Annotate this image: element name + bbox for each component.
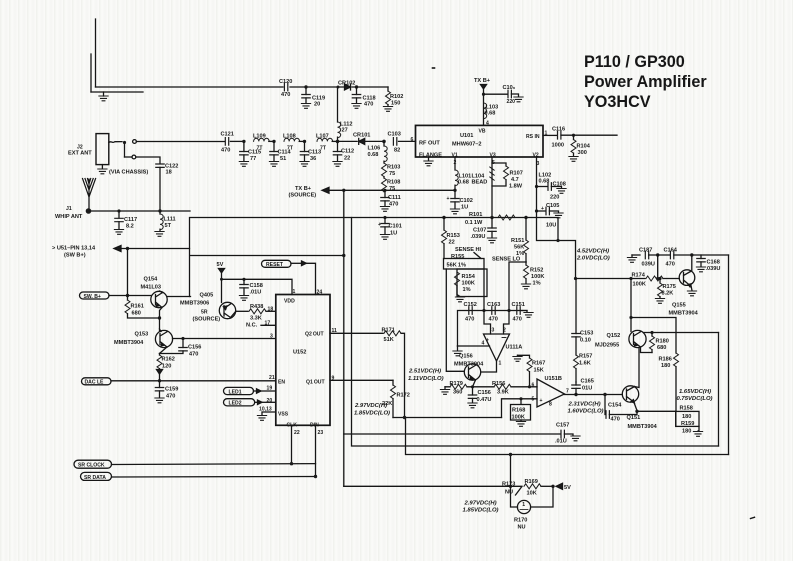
svg-text:C151: C151 [512, 302, 525, 308]
inductor L102 [539, 173, 552, 185]
node (R180 tap) [650, 331, 653, 334]
wire: J2 shield contact [125, 155, 161, 163]
svg-text:R107: R107 [510, 171, 523, 177]
svg-text:NU: NU [518, 525, 526, 531]
svg-text:R151: R151 [511, 238, 524, 244]
capacitor C115 [240, 141, 261, 162]
svg-text:V2: V2 [533, 153, 539, 159]
svg-text:LED2: LED2 [229, 401, 242, 407]
svg-text:22: 22 [449, 240, 455, 246]
resistor R107 [492, 163, 523, 190]
ground (C106) [514, 97, 523, 102]
node (C156 op tap) [471, 385, 474, 388]
svg-text:C165: C165 [581, 379, 594, 385]
node SR CLOCK oval [74, 460, 316, 469]
node (CLK junction) [290, 462, 293, 465]
resistor R171 [382, 328, 405, 418]
svg-text:470: 470 [513, 317, 522, 323]
svg-text:C108: C108 [553, 182, 566, 188]
capacitor C154 [605, 395, 637, 423]
pin 21 (U152 EN) [269, 375, 275, 381]
svg-text:4.52VDC(H): 4.52VDC(H) [576, 249, 609, 255]
svg-text:MMBT3904: MMBT3904 [669, 311, 699, 317]
svg-text:VSS: VSS [278, 412, 289, 418]
resistor R170 NU [511, 486, 554, 530]
svg-text:Q156: Q156 [459, 354, 473, 360]
svg-text:470: 470 [666, 262, 675, 268]
resistor R159 [676, 411, 699, 434]
ground (R167 ref) [513, 355, 522, 361]
wire: pin5 [502, 399, 538, 418]
pin 17 (U152 N.C) [246, 321, 276, 329]
node RESET flag [262, 260, 316, 294]
node (R175 tap) [658, 277, 661, 280]
svg-text:> U51–PIN 13,14: > U51–PIN 13,14 [52, 246, 96, 252]
svg-text:9: 9 [332, 376, 335, 382]
node TX B+ (SOURCE) flag [289, 186, 456, 199]
node (V1/TXB+ junction) [453, 189, 456, 192]
svg-text:1: 1 [499, 361, 502, 367]
wire: Q1 OUT pin 9 [330, 376, 393, 382]
wire: short lower stub y=92 [91, 91, 143, 93]
ground (U152 VSS pins 10,13) [257, 407, 275, 421]
svg-text:5: 5 [532, 397, 535, 403]
transistor Q154 M41L03 [141, 277, 191, 319]
wire: sense rail right end [526, 218, 560, 243]
node 4.52VDC annotation [576, 249, 610, 262]
svg-text:24: 24 [317, 290, 323, 296]
svg-text:1U: 1U [390, 231, 397, 237]
ground (C115) [239, 162, 248, 167]
svg-text:01U: 01U [582, 386, 592, 392]
node SENSE LO [492, 257, 526, 311]
wire: bus line y=454.5 [406, 418, 729, 455]
svg-text:470: 470 [166, 394, 175, 400]
ground (pin4 stub) [453, 351, 462, 356]
svg-text:BEAD: BEAD [472, 180, 488, 186]
svg-text:470: 470 [364, 102, 373, 108]
capacitor C106 [484, 85, 519, 105]
ground (C157) [571, 436, 580, 441]
op-amp U151B [532, 376, 570, 408]
svg-text:MMBT3906: MMBT3906 [180, 301, 209, 307]
wire: Q152 base drop [630, 279, 632, 332]
antenna J1 whip symbol [55, 179, 96, 221]
ground (C158) [239, 296, 248, 301]
svg-text:360: 360 [453, 390, 462, 396]
ground (U101 flange) [424, 157, 433, 166]
resistor R108 [382, 177, 401, 192]
ground (C107) [487, 238, 496, 243]
svg-text:MMBT3904: MMBT3904 [628, 424, 658, 430]
svg-text:L107: L107 [316, 134, 329, 140]
svg-text:R174: R174 [632, 273, 646, 279]
svg-text:4: 4 [486, 121, 489, 127]
ground (R102) [383, 107, 392, 112]
svg-text:1U: 1U [461, 205, 468, 211]
svg-text:Q2 OUT: Q2 OUT [305, 332, 324, 338]
svg-text:470: 470 [489, 317, 498, 323]
pin 5 (U101 V3) [492, 160, 495, 166]
svg-text:3: 3 [270, 334, 273, 340]
wire: sense-hi drop to op-amp [483, 269, 485, 311]
resistor R102 [386, 87, 404, 107]
resistor R101 current sense [465, 212, 515, 226]
svg-text:180: 180 [682, 414, 691, 420]
resistor R169 [524, 479, 553, 497]
resistor R162 [157, 354, 175, 381]
inductor L109 [253, 134, 274, 152]
ground (C187 left) [627, 255, 640, 262]
svg-text:C157: C157 [556, 423, 569, 429]
node (C122/L111 junction) [158, 209, 161, 212]
svg-text:5R: 5R [201, 310, 208, 316]
inductor L104 bead [472, 167, 495, 186]
node (C120/C119 junction) [304, 85, 307, 88]
svg-text:R167: R167 [532, 361, 545, 367]
svg-text:0.47U: 0.47U [477, 397, 492, 403]
wire: inner right bus [718, 333, 720, 447]
pin 2 (U101 V1) [454, 160, 457, 166]
svg-text:.01U: .01U [250, 290, 262, 296]
svg-text:1.65VDC(H): 1.65VDC(H) [679, 389, 711, 395]
svg-text:C117: C117 [124, 217, 137, 223]
svg-text:R179: R179 [450, 381, 463, 387]
svg-text:1.85VDC(LO): 1.85VDC(LO) [354, 411, 390, 417]
svg-text:R171: R171 [382, 328, 395, 334]
svg-text:DIN: DIN [310, 423, 319, 429]
wire: emitter row [445, 386, 537, 388]
resistor R168 [511, 397, 531, 421]
node SW B+ oval [80, 292, 110, 300]
capacitor C118 [352, 87, 375, 108]
svg-text:C112: C112 [341, 149, 354, 155]
svg-text:R156: R156 [492, 381, 505, 387]
ground (C111) [380, 207, 389, 212]
svg-text:C187: C187 [639, 248, 652, 254]
svg-text:U101: U101 [460, 133, 473, 139]
svg-text:R161: R161 [131, 304, 144, 310]
svg-text:120: 120 [162, 364, 171, 370]
svg-text:SW. B+: SW. B+ [84, 294, 101, 300]
svg-text:20: 20 [314, 102, 320, 108]
svg-text:J1: J1 [66, 206, 72, 212]
title block [584, 53, 707, 111]
svg-text:R172: R172 [397, 393, 410, 399]
svg-text:Q153: Q153 [135, 332, 149, 338]
ground (R175) [655, 299, 664, 304]
svg-text:470: 470 [189, 352, 198, 358]
ground (C114) [269, 162, 278, 167]
node (J2 pin junction) [123, 141, 126, 157]
capacitor C163 [487, 302, 500, 323]
capacitor C119 [302, 87, 325, 108]
svg-text:6: 6 [411, 137, 414, 143]
capacitor C164 [658, 248, 692, 268]
transistor Q152 MJD2955 [595, 330, 646, 348]
wire: J2 center pin to contact [109, 140, 225, 144]
svg-text:100K: 100K [633, 282, 646, 288]
svg-text:R169: R169 [525, 479, 538, 485]
svg-text:C153: C153 [580, 331, 593, 337]
pin 1 (U111A output) [481, 361, 502, 373]
svg-text:5V: 5V [564, 485, 571, 491]
wire: whip antenna line [91, 210, 191, 212]
svg-text:(SOURCE): (SOURCE) [193, 317, 221, 323]
svg-text:75: 75 [389, 186, 395, 192]
inductor L108 [283, 134, 305, 152]
svg-text:470: 470 [611, 417, 620, 423]
wire: U151B output [565, 394, 623, 396]
svg-text:RS IN: RS IN [526, 134, 540, 140]
node SENSE HI [455, 247, 482, 259]
svg-text:EN: EN [278, 380, 285, 386]
transistor Q151 [622, 386, 657, 430]
node (DIN junction) [314, 475, 317, 478]
svg-text:3.3K: 3.3K [250, 316, 262, 322]
svg-text:M41L03: M41L03 [141, 285, 162, 291]
svg-text:56K: 56K [514, 245, 524, 251]
IC U152 [276, 295, 330, 429]
svg-text:YO3HCV: YO3HCV [584, 93, 651, 111]
capacitor C116 [543, 127, 617, 149]
svg-text:10K: 10K [527, 491, 537, 497]
wire: Q156 base feed [446, 269, 464, 371]
node (C113 tap) [303, 140, 306, 143]
svg-text:0.68: 0.68 [485, 111, 496, 117]
node (C117 tap) [117, 209, 120, 212]
node (C187/C164 junction) [656, 253, 659, 278]
svg-text:TX B+: TX B+ [474, 78, 491, 84]
svg-text:+: + [541, 206, 544, 212]
svg-text:Q155: Q155 [672, 303, 686, 309]
svg-text:20: 20 [267, 398, 273, 404]
capacitor C108 [537, 182, 566, 201]
svg-text:R159: R159 [681, 421, 694, 427]
svg-text:C156: C156 [478, 390, 491, 396]
svg-text:100K: 100K [462, 281, 475, 287]
node LED2 oval [224, 398, 276, 407]
svg-text:R186: R186 [659, 357, 672, 363]
svg-text:8: 8 [549, 402, 552, 408]
resistor R104 [571, 135, 591, 156]
resistor R153 [442, 216, 460, 259]
svg-text:82: 82 [394, 148, 400, 154]
capacitor C165 [572, 379, 594, 395]
wire: reset rail to bus [191, 255, 344, 257]
svg-text:R103: R103 [387, 165, 400, 171]
pin 24 (U152) [317, 290, 323, 296]
svg-text:11: 11 [332, 328, 338, 334]
svg-text:R104: R104 [577, 144, 591, 150]
svg-text:VB: VB [479, 129, 486, 135]
svg-text:23: 23 [318, 430, 324, 436]
resistor R158 [676, 406, 693, 427]
svg-text:L109: L109 [253, 134, 266, 140]
svg-text:R168: R168 [512, 408, 525, 414]
svg-text:SR DATA: SR DATA [84, 475, 106, 481]
inductor L101 [455, 170, 471, 186]
svg-text:+: + [447, 196, 450, 202]
node (pin2 drop) [507, 309, 510, 312]
capacitor C107 [471, 218, 497, 241]
svg-text:220: 220 [550, 195, 559, 201]
svg-text:1: 1 [293, 289, 296, 295]
svg-text:470: 470 [465, 317, 474, 323]
svg-text:Q152: Q152 [607, 333, 621, 339]
svg-text:680: 680 [657, 345, 666, 351]
ground (J2 via chassis) [98, 169, 149, 176]
node (C108 tap) [535, 185, 538, 188]
ground (R168) [516, 422, 525, 427]
capacitor C117 [115, 211, 137, 230]
svg-text:L111: L111 [164, 217, 176, 223]
node (Q151 emitter junction) [635, 410, 676, 413]
ground (C119) [301, 104, 310, 109]
svg-text:180: 180 [682, 429, 691, 435]
svg-text:3: 3 [492, 328, 495, 334]
svg-text:22: 22 [294, 430, 300, 436]
svg-text:4: 4 [482, 341, 485, 347]
capacitor C158 [240, 279, 263, 295]
resistor R174 [576, 273, 680, 288]
resistor R438 [236, 304, 276, 322]
capacitor C111 [381, 190, 401, 207]
svg-text:1000: 1000 [552, 143, 564, 149]
svg-text:51: 51 [280, 156, 286, 162]
svg-text:+: + [378, 222, 381, 228]
svg-text:C120: C120 [279, 79, 292, 85]
ground (C102) [450, 209, 459, 214]
node (Q154 emitter junction) [158, 316, 161, 330]
svg-text:MMBT3904: MMBT3904 [454, 362, 484, 368]
wire: C112 to CR101 [339, 140, 357, 142]
svg-text:L108: L108 [283, 134, 296, 140]
capacitor C103 [388, 132, 416, 154]
capacitor C156 (Q153) [160, 339, 202, 358]
inductor L106 [368, 141, 388, 161]
capacitor C157 [555, 423, 573, 445]
ground (C112) [333, 162, 342, 167]
node (C114 tap) [272, 140, 275, 143]
svg-text:C168: C168 [707, 260, 720, 266]
ground (L111) [155, 232, 164, 237]
ground (C159) [155, 398, 164, 403]
svg-text:51K: 51K [384, 337, 394, 343]
svg-text:FLANGE: FLANGE [419, 153, 442, 159]
svg-text:R180: R180 [656, 339, 669, 345]
svg-text:+: + [486, 338, 489, 344]
node (Q152 base mirror branch) [629, 316, 676, 353]
svg-text:2.51VDC(H): 2.51VDC(H) [408, 369, 441, 375]
connector J2 EXT ANT [68, 134, 109, 169]
svg-text:.039U: .039U [706, 266, 721, 272]
capacitor C120 [279, 79, 292, 98]
node (C165 junction) [574, 393, 606, 396]
svg-text:7T: 7T [257, 146, 264, 152]
resistor R172 [382, 380, 410, 417]
svg-text:(SW B+): (SW B+) [64, 253, 86, 259]
transistor Q156 [454, 354, 484, 387]
svg-text:150: 150 [391, 101, 400, 107]
svg-text:(SOURCE): (SOURCE) [289, 193, 317, 199]
svg-text:2.0VDC(LO): 2.0VDC(LO) [576, 256, 610, 262]
svg-text:0.10: 0.10 [580, 338, 591, 344]
capacitor C187 [639, 248, 658, 268]
node (L106 junction) [382, 140, 386, 144]
wire: R172 rail [393, 416, 502, 419]
resistor R156 [492, 381, 511, 396]
pin 18 (U152) [268, 307, 274, 313]
svg-text:C101: C101 [389, 224, 402, 230]
svg-text:470: 470 [281, 92, 290, 98]
svg-text:RF OUT: RF OUT [419, 141, 440, 147]
svg-text:75: 75 [389, 171, 395, 177]
resistor R152 [524, 262, 545, 287]
wire: Q152 emitter [641, 347, 653, 353]
svg-text:0.68: 0.68 [368, 152, 379, 158]
svg-text:680: 680 [132, 311, 141, 317]
svg-text:180: 180 [661, 363, 670, 369]
svg-text:R154: R154 [462, 274, 476, 280]
capacitor C121 [221, 132, 244, 154]
svg-text:C163: C163 [487, 302, 500, 308]
inductor L112 [338, 87, 353, 141]
svg-text:1.85VDC(LO): 1.85VDC(LO) [463, 508, 499, 514]
node (R104 tap) [572, 134, 575, 137]
svg-text:470: 470 [389, 202, 398, 208]
svg-text:LED1: LED1 [229, 389, 242, 395]
svg-text:(VIA CHASSIS): (VIA CHASSIS) [109, 170, 148, 176]
pin 6 (U101 RF OUT) [411, 137, 414, 143]
svg-text:R152: R152 [530, 268, 543, 274]
capacitor C153 [572, 279, 594, 356]
svg-text:MJD2955: MJD2955 [595, 343, 619, 349]
pin 2 (U111A) [503, 311, 509, 335]
svg-text:1%: 1% [463, 287, 471, 293]
svg-text:2.97VDC(H): 2.97VDC(H) [464, 501, 497, 507]
svg-text:18: 18 [166, 170, 172, 176]
node (R170 left junction) [509, 453, 512, 488]
svg-text:+: + [540, 398, 543, 404]
wire: bus line y=434 [344, 433, 560, 435]
ground (Q155 emitter) [687, 291, 696, 296]
resistor R186 [659, 353, 679, 411]
svg-text:C116: C116 [552, 127, 565, 133]
svg-text:N.C.: N.C. [246, 323, 258, 329]
wire: outer right bus [728, 255, 730, 455]
capacitor C114 [270, 141, 292, 162]
svg-text:P110 / GP300: P110 / GP300 [584, 53, 685, 71]
node 2.51VDC annotation [408, 369, 444, 383]
svg-text:19: 19 [267, 386, 273, 392]
svg-text:22: 22 [344, 156, 350, 162]
svg-text:C156: C156 [188, 345, 201, 351]
ground (R104) [569, 157, 578, 162]
node 1.65VDC annotation [677, 389, 713, 402]
svg-text:R102: R102 [390, 94, 403, 100]
node (rail junction) [574, 277, 659, 280]
svg-text:21: 21 [269, 375, 275, 381]
svg-text:Q405: Q405 [200, 293, 214, 299]
wire: top ground stub verticals [91, 19, 96, 92]
svg-text:039U: 039U [642, 262, 655, 268]
svg-text:R173: R173 [502, 482, 515, 488]
inductor L103 [484, 103, 499, 119]
svg-text:C158: C158 [250, 283, 263, 289]
svg-text:Q154: Q154 [144, 277, 159, 283]
pin 22 (U152 CLK) [292, 425, 300, 463]
